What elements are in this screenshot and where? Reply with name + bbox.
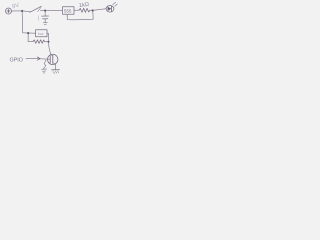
wire [41,10,46,12]
battery terminal BT1 [6,8,12,14]
resistor R2 [33,40,45,44]
wire left rail down from node A [22,12,28,33]
wire [90,9,93,11]
capacitor C1 [42,12,49,25]
IC U1 555 box [63,7,75,14]
svg-text:GPIO: GPIO [10,58,23,64]
wire drain [49,43,51,55]
resistor R1 [79,8,90,12]
node B junction dot [44,10,46,12]
ground (gate pulldown) [42,60,47,73]
wire [23,10,30,13]
node E junction dot [48,41,50,43]
wire [46,9,62,11]
wire to LED [94,9,106,11]
transistor Q1 [48,54,58,64]
LED D1 [106,2,117,12]
node C junction dot [92,9,94,11]
svg-text:buz: buz [38,32,44,36]
buzzer BZ1 box [36,30,47,37]
wire [45,41,49,43]
wire [28,34,33,42]
wire arrow from GPIO [26,57,40,60]
switch S1 [30,6,42,12]
label 1 (cap value) [37,16,39,21]
wire [12,10,22,12]
wire [29,32,35,34]
wire gate [40,58,50,60]
svg-text:555: 555 [64,8,72,13]
ground (source) [52,64,60,73]
node A junction dot [21,10,23,12]
wire [74,9,79,11]
wire [47,33,49,41]
node D junction dot [27,32,29,34]
wire feedback loop [67,12,93,20]
